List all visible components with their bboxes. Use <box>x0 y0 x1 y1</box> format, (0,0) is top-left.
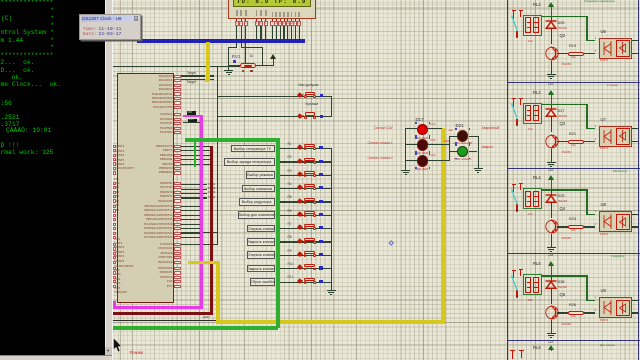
wire R23 to opto pin <box>584 226 595 227</box>
relay RL5 coil <box>523 274 542 295</box>
label R9 <box>288 250 292 253</box>
net label Max dopuska <box>299 84 319 87</box>
label LED-RED (1) <box>416 137 429 140</box>
wire button right-side tie vertical <box>331 96 332 118</box>
label RV1 value 1k <box>250 55 254 59</box>
microcontroller U1 (ATmega) body <box>117 73 174 303</box>
wire net A horizontal (left edge to RV1) <box>113 66 240 67</box>
wire D27 top <box>551 105 552 110</box>
power arrow +12V (RL5) <box>548 261 554 267</box>
wire yellow-2 bottom horizontal <box>216 320 445 324</box>
LCD pin name labels (VSS VDD VEE RS RW E D0-D7) <box>0 0 1 1</box>
terminal dot (blue) row 8 <box>319 240 322 243</box>
wire magenta bottom horizontal <box>113 306 203 309</box>
LED D17 (lit red) <box>417 124 429 136</box>
wires U1 pin stubs into magenta bundle <box>0 0 1 1</box>
wire Q3 base to R <box>557 141 569 142</box>
net label Rezhim (bottom) <box>130 351 144 355</box>
label D21 <box>456 124 464 128</box>
wire D29 to Q4 collector <box>551 202 552 218</box>
wire dark-red bottom horizontal <box>113 312 213 315</box>
ground (button rail) <box>327 287 336 295</box>
U1 left pin boxes (clipped) <box>0 0 1 1</box>
label R23 value 10k <box>571 230 575 233</box>
wire U9 pin3 right <box>632 312 638 313</box>
label RL2 voltage 12V <box>528 40 533 43</box>
net label box: Открыть клапан 2 <box>247 251 275 259</box>
net label box: Закрыть клапан 1 <box>247 238 275 246</box>
LCD module LCD1 body <box>228 0 316 19</box>
wire U7 pin3 right <box>632 141 638 142</box>
LED D21 (dark yellow) <box>457 130 469 142</box>
wire RL4 arrow stem <box>551 181 552 191</box>
relay RL5 contact terminals <box>510 269 524 299</box>
U6 pin numbers <box>595 37 596 40</box>
U1 left pin names cluster 1 <box>0 0 1 1</box>
wire LED2 left stub <box>405 144 417 145</box>
wire LED2 right <box>428 144 450 145</box>
diode D05 symbol <box>545 20 557 29</box>
terminal dot (blue) row 1 <box>319 146 322 149</box>
wire net B bottom stub to U1 pin <box>180 244 218 245</box>
wire Q2 emitter down <box>551 61 552 71</box>
wire U1 stub below magenta <box>183 122 201 123</box>
transistor Q5 symbol <box>545 304 560 321</box>
wire pot right to arrow <box>256 65 274 66</box>
label R10 <box>288 263 294 266</box>
label +12 (RL5) <box>548 341 553 344</box>
label RL4 voltage 12V <box>528 213 533 216</box>
button SW5 <box>297 196 321 205</box>
label +12 (RL2) <box>548 83 553 86</box>
wire green pin bracket vertical <box>194 141 196 167</box>
optocoupler U9 body <box>599 297 632 318</box>
wire green from U1 to button column <box>185 138 279 142</box>
net label Target b <box>187 81 196 84</box>
wire yellow-1 stub b <box>205 79 211 82</box>
label R6 <box>288 210 292 213</box>
wire U6 pin4 right <box>632 40 638 41</box>
wire U8 pin4 right <box>632 214 638 215</box>
button Max dopuska <box>298 91 322 100</box>
terminal dot (blue) row 7 <box>319 226 322 229</box>
relay RL6 contact terminals (partial) <box>509 349 525 360</box>
wire U7 pin4 right <box>632 128 638 129</box>
wires U1 run3 pin stubs to dark-red trunk <box>0 0 1 1</box>
net label box: Закрыть клапан 2 <box>247 265 275 273</box>
transistor Q3 symbol <box>545 133 560 150</box>
label R26 value 10k <box>571 316 575 319</box>
label D38 <box>558 281 565 285</box>
net label Avariyny <box>482 127 500 130</box>
U1 right pin boxes run 3 <box>0 0 1 1</box>
wire RL3 coil to opto (green top) <box>542 104 588 105</box>
resistor R21 <box>568 140 585 144</box>
label R19 value 10k <box>571 57 575 60</box>
net label box: Выбор доп клапанов <box>238 211 275 219</box>
divider line below RL4 <box>507 253 640 254</box>
button SW10 <box>297 263 321 272</box>
wire black AKB horizontal <box>113 320 236 321</box>
net label Target a <box>187 72 196 75</box>
U1 right pin boxes run 4 <box>0 0 1 1</box>
wire VEE down to wiper <box>245 26 246 63</box>
label R21 value 10k <box>571 145 575 148</box>
U1 pin names run 1 <box>0 0 1 1</box>
wires U1 run4 stubs with labels <box>0 0 1 1</box>
mouse cursor <box>113 338 123 354</box>
wire R19 to opto pin <box>584 53 595 54</box>
terminal dot (blue) row 2 <box>319 160 322 163</box>
button SW2 <box>297 156 321 165</box>
label LED-RED (3) <box>416 168 429 171</box>
label RL3 voltage 12V <box>528 128 533 131</box>
popup window DS1307 Clock - U6 <box>79 14 141 41</box>
wire VDD to right bracket <box>241 47 264 48</box>
net label Signal SAU <box>374 127 393 130</box>
U7 pin numbers <box>595 125 596 128</box>
label Q4 <box>560 207 566 211</box>
label D27 <box>558 110 565 114</box>
relay block RL2 top net text <box>584 0 638 3</box>
wire button row 10 <box>280 268 332 269</box>
label R8 <box>288 236 292 239</box>
wire U1 pin stub y232 <box>180 232 218 233</box>
wire Q5 emitter down <box>551 320 552 330</box>
label U9 type PC817 <box>600 319 609 322</box>
net label Signal otkaza 1 <box>368 142 393 145</box>
terminal dot (blue) row 9 <box>319 253 322 256</box>
LCD pin number boxes 1-14 <box>0 0 1 1</box>
diode D29 symbol <box>545 194 557 203</box>
U1 right pin boxes run 5 <box>0 0 1 1</box>
label LED-RED (2) <box>416 152 429 155</box>
label R2 <box>288 156 292 159</box>
wire VSS down <box>236 26 237 48</box>
resistor R23 <box>568 225 585 229</box>
power arrow (pot) <box>270 54 276 59</box>
wire R21 to opto pin <box>584 141 595 142</box>
label +12 (RL4) <box>548 254 553 257</box>
button SW9 <box>297 250 321 259</box>
power arrow +12V (RL4) <box>548 175 554 181</box>
wire magenta vertical <box>200 115 203 308</box>
wire RL4 coil to opto (green top) <box>542 189 588 190</box>
wire button row 6 <box>280 215 332 216</box>
ground (LED rail left) <box>401 167 410 175</box>
label R3 <box>288 170 292 173</box>
wire D29 top <box>551 190 552 195</box>
label R4 <box>288 183 292 186</box>
wire magenta stub from U1 <box>183 115 201 118</box>
resistor R19 <box>568 52 585 56</box>
wire button row 7 <box>280 228 332 229</box>
U1 pin names run 6 <box>0 0 1 1</box>
net label box: Открыть клапан 1 <box>247 225 275 233</box>
net label box: Сброс ошибок <box>250 278 275 286</box>
wire yellow-2 vertical left <box>216 261 220 320</box>
relay block RL6 top net text <box>600 344 640 347</box>
resistor R26 <box>568 311 585 315</box>
terminal dot (blue) row 10 <box>319 266 322 269</box>
wire button row 9 <box>280 255 332 256</box>
label R1 <box>288 143 292 146</box>
terminal window (virtual terminal, black) <box>0 0 105 360</box>
wire D27 to Q3 collector <box>551 116 552 132</box>
terminal dot (blue) row 3 <box>319 173 322 176</box>
net tag AV2 (D22) <box>444 141 449 144</box>
terminal dot (blue) row 6 <box>319 213 322 216</box>
label R11 <box>288 276 294 279</box>
label RL3 <box>533 91 541 95</box>
wire D05 to Q2 collector <box>551 28 552 44</box>
label RL4 <box>533 176 541 180</box>
wire bracket right vertical <box>262 47 263 65</box>
wire Q4 base to R <box>557 226 569 227</box>
wire button row 11 <box>280 282 332 283</box>
wire RL2 coil to opto (green top) <box>542 16 588 17</box>
net label box: Выбор генератора ТУ <box>231 145 275 153</box>
wire D38 to Q5 collector <box>551 288 552 304</box>
power arrow +12V (RL6) <box>548 345 554 351</box>
relay RL4 contact terminals <box>510 183 524 213</box>
wire jog vertical (to D21) <box>449 136 450 161</box>
relay RL3 coil <box>523 103 542 124</box>
relay block RL4 top net text <box>613 170 638 173</box>
label Q3 type 2N2369 <box>562 152 571 155</box>
button SW3 <box>297 170 321 179</box>
U1 pin names run 5 <box>0 0 1 1</box>
wire RL3 opto drop vertical <box>586 104 587 129</box>
wire XTAL Target b <box>181 79 214 80</box>
U8 pin numbers <box>595 210 596 213</box>
wire yellow-1 stub a <box>205 75 211 78</box>
terminal dot (blue) row 4 <box>319 186 322 189</box>
wire Q3 emitter down <box>551 149 552 159</box>
label Q4 type 2N2369 <box>562 238 571 241</box>
optocoupler U6 body <box>599 38 632 59</box>
label U8 <box>601 203 606 207</box>
LED D22 (lit green) <box>457 146 468 157</box>
relay RL2 coil <box>523 15 542 36</box>
wire RL3 arrow stem <box>551 95 552 105</box>
optocoupler U8 body <box>599 211 632 232</box>
net label Avaria <box>482 146 494 149</box>
ground (RL2 driver) <box>547 71 556 79</box>
relay RL4 coil <box>523 188 542 209</box>
U1 left pin names cluster 3 <box>0 0 1 1</box>
label Q5 type 2N2369 <box>562 324 571 327</box>
label RV1 <box>232 55 241 60</box>
wire LED left rail <box>405 128 406 167</box>
wire RL5 arrow stem <box>551 267 552 277</box>
white gap between terminal and schematic <box>112 0 113 360</box>
wire button row 3 <box>280 175 332 176</box>
net label AKB1 <box>203 316 210 319</box>
label RL6 <box>533 346 541 350</box>
LCD screen <box>233 0 311 7</box>
terminal dot (blue) Max dopuska <box>320 94 323 97</box>
wire button row 4 <box>280 188 332 189</box>
wire LED1 right to yellow <box>428 128 442 129</box>
wire to D21 green LED <box>449 151 457 152</box>
label U6 <box>601 30 606 34</box>
U1 left pin names cluster 4 <box>0 0 1 1</box>
net label Signal otkaza 2 <box>368 157 393 160</box>
net label box (dark) at PD stub 2 <box>188 119 197 122</box>
wire U8 pin3 right <box>632 226 638 227</box>
diode D38 symbol <box>545 280 557 289</box>
label R21 <box>569 133 576 137</box>
label RL5 <box>533 262 541 266</box>
wire RL2 arrow stem <box>551 7 552 17</box>
wire LED1 left stub <box>405 128 417 129</box>
divider line below RL2 <box>507 82 640 83</box>
U1 right pin boxes run 2 <box>0 0 1 1</box>
label D29 value 1N4148 <box>558 201 567 204</box>
terminal scrollbar bottom strip <box>0 355 112 360</box>
LED D18 (dark red) <box>417 139 429 151</box>
button SW1 <box>297 143 321 152</box>
net tag nav (D21) <box>449 130 453 133</box>
wire XTAL Target a <box>181 75 214 76</box>
power arrow +12V (RL2) <box>548 2 554 8</box>
wire RL4 opto drop vertical <box>586 189 587 214</box>
net label box: Выбор заряда генератора <box>224 158 275 166</box>
label LED-GREEN <box>455 158 472 161</box>
U1 left pin names cluster 2 <box>0 0 1 1</box>
wire U9 pin4 right <box>632 300 638 301</box>
wire green button column vertical <box>276 138 280 329</box>
power arrow +12V (RL3) <box>548 90 554 96</box>
wire net B branch to button Kulachki <box>218 116 332 117</box>
label D17 <box>416 118 424 122</box>
wire green bottom horizontal <box>113 326 278 330</box>
transistor Q2 symbol <box>545 45 560 62</box>
U1 pin names run 3 <box>0 0 1 1</box>
wire arrow riser <box>273 57 274 67</box>
wire D22 right stub <box>469 151 478 152</box>
net tag D12 <box>431 140 436 143</box>
U9 pin numbers <box>595 296 596 299</box>
LCD screen text <box>237 0 307 5</box>
ground (RL4 driver) <box>547 244 556 252</box>
wire RL3 opto pin1 horizontal <box>586 128 595 129</box>
label RL2 <box>533 3 541 7</box>
net tag D10 <box>431 124 436 127</box>
net label text 2 (green) <box>189 119 194 122</box>
wire LED3 right <box>428 160 450 161</box>
label R23 <box>569 218 576 222</box>
wire LED3 left stub <box>405 160 417 161</box>
RV1 wiper mark <box>233 60 236 63</box>
terminal dot (blue) Kulachki <box>320 115 323 118</box>
wire R26 to opto pin <box>584 312 595 313</box>
label +12 (RL3) <box>548 169 553 172</box>
U1 right pin boxes run 1 <box>0 0 1 1</box>
U1 right pin boxes run 7 <box>0 0 1 1</box>
relay section right rail (blue vertical) <box>638 0 640 360</box>
wire LED right rail <box>478 136 479 166</box>
label D27 value 1N4148 <box>558 116 567 119</box>
label D38 value 1N4148 <box>558 287 567 290</box>
ground (LED rail right) <box>474 165 483 173</box>
wire RL2 opto pin1 horizontal <box>586 40 595 41</box>
wire button row 1 <box>280 148 332 149</box>
wire button rail ground stem <box>331 284 332 291</box>
U1 pin names run 4 <box>0 0 1 1</box>
net label box: Выбор клапанов <box>242 185 275 193</box>
relay RL3 contact terminals <box>510 97 524 127</box>
button SW4 <box>297 183 321 192</box>
wire U6 pin3 right <box>632 53 638 54</box>
wire net B branch to button Max dopuska <box>218 96 332 97</box>
U1 right pin boxes run 6 <box>0 0 1 1</box>
wire net B vertical trunk <box>217 66 218 245</box>
label Q2 <box>560 34 566 38</box>
potentiometer RV1 body <box>240 63 256 68</box>
bus LCD data/control (blue) <box>137 39 305 43</box>
LCD pin stubs <box>0 0 1 1</box>
wire Q4 emitter down <box>551 234 552 244</box>
wire button row 8 <box>280 241 332 242</box>
label D05 value 1N4148 <box>558 28 567 31</box>
origin marker (blue diamond) <box>388 240 394 246</box>
optocoupler U7 body <box>599 126 632 147</box>
label U6 type PC817 <box>600 59 609 62</box>
wire to D21 yellow LED <box>449 136 457 137</box>
terminal dot (blue) row 5 <box>319 200 322 203</box>
diode D27 symbol <box>545 108 557 117</box>
wire yellow-2 stub from U1 <box>188 261 216 264</box>
wire RL5 coil to opto (green top) <box>542 275 588 276</box>
ground (RV1/VSS) <box>224 67 233 75</box>
terminal green text <box>0 0 104 356</box>
wire RL2 opto drop vertical <box>586 16 587 41</box>
relay block RL3 top net text <box>607 84 638 87</box>
terminal scrollbar vertical <box>105 0 112 356</box>
label Q3 <box>560 122 566 126</box>
label D29 <box>558 195 565 199</box>
wire RL4 opto pin1 horizontal <box>586 214 595 215</box>
wire magenta left riser <box>113 301 116 307</box>
U1 pin names run 2 <box>0 0 1 1</box>
wire yellow-2 vertical right (by LEDs) <box>441 128 445 323</box>
relay block RL5 top net text <box>611 255 638 258</box>
wire RL5 opto drop vertical <box>586 275 587 300</box>
label R5 <box>288 196 292 199</box>
net label box (dark) at PD stub <box>187 111 197 114</box>
wire VSS to bracket <box>228 47 236 48</box>
button SW11 <box>297 277 321 286</box>
wires LCD pins RS RW E D0-D7 to bus <box>0 0 1 1</box>
net label box: Выбор редуктора <box>239 198 275 206</box>
relay section left border (blue vertical) <box>507 0 509 360</box>
wire Q2 base to R <box>557 53 569 54</box>
wire yellow-1 vertical <box>206 42 210 80</box>
label R26 <box>569 304 576 308</box>
terminal scrollbar corner arrow <box>105 347 112 355</box>
net tag D14 <box>431 155 436 158</box>
divider line below RL5 <box>507 340 640 341</box>
wire Q5 base to R <box>557 312 569 313</box>
button SW7 <box>297 223 321 232</box>
net label Kulachki <box>306 103 319 106</box>
wire bracket left vertical <box>228 47 229 65</box>
net label box: Выбор режима <box>246 171 275 179</box>
ground (RL3 driver) <box>547 159 556 167</box>
wire dark-red vertical <box>210 146 213 313</box>
